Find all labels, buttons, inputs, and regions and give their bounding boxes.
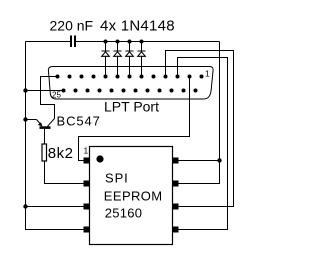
wire top supply rail left segment to capacitor (26, 41, 71, 43)
connector X1 LPT DB25 outline (48, 67, 213, 100)
diode D4 (138, 51, 146, 56)
svg-text:25: 25 (52, 91, 61, 100)
IC U1 right pin stubs (pins 5-8) (173, 158, 179, 233)
wire LPT pin4 hook to V3 down to EEPROM pin6 (166, 51, 234, 207)
junction V1 / EEPROM pin8 wire (217, 158, 221, 162)
wire diode D4 branch (141, 42, 143, 77)
connector X1 bottom row pins 14-25 (62, 89, 198, 93)
wire diode D1 branch (105, 42, 107, 77)
connector X1 top row pins 1-13 (56, 75, 204, 79)
svg-text:220 nF: 220 nF (50, 18, 94, 34)
junction supply rail / diode D2 (116, 40, 120, 44)
wire diode D2 branch (117, 42, 119, 77)
svg-text:BC547: BC547 (57, 114, 101, 129)
transistor Q1 base bar (40, 126, 51, 129)
junction ground rail / transistor emitter (23, 117, 27, 121)
transistor Q1 base wire down to resistor (44, 129, 46, 144)
svg-text:EEPROM: EEPROM (104, 189, 163, 204)
wire resistor bottom to EEPROM pin2 (45, 162, 84, 184)
junction ground rail / EEPROM pin3 wire (23, 204, 27, 208)
junction ground rail / pin25 wire (23, 88, 27, 92)
junction supply rail / diode D4 (140, 40, 144, 44)
wire V1 supply down right side to EEPROM pin8/pin7 (179, 42, 220, 184)
diode D3 (126, 51, 134, 56)
wire LPT pin2 down to EEPROM pin1 (CS) (79, 77, 190, 161)
wire diode D3 branch (129, 42, 131, 77)
transistor Q1 BC547 (26, 119, 55, 145)
diode D2 (114, 51, 122, 56)
svg-text:LPT Port: LPT Port (104, 99, 159, 115)
IC U1 SPI EEPROM 25160 body (90, 147, 173, 245)
transistor Q1 emitter arrowhead (38, 122, 43, 126)
svg-text:SPI: SPI (105, 171, 129, 186)
transistor Q1 emitter diagonal (37, 120, 42, 126)
wire ground rail to LPT pin25 (26, 90, 64, 92)
svg-text:8k2: 8k2 (48, 145, 74, 162)
svg-text:4x 1N4148: 4x 1N4148 (100, 18, 175, 35)
wire ground rail to EEPROM pin3 (26, 206, 84, 208)
transistor Q1 collector diagonal (48, 119, 55, 127)
IC U1 pin 1 indicator dot (96, 155, 103, 162)
wire LPT pin13 to transistor collector (41, 77, 58, 119)
resistor R1 8k2 (42, 144, 47, 161)
junction supply rail / diode D1 (104, 40, 108, 44)
wire EEPROM pin8 to V1 (179, 160, 220, 162)
svg-text:25160: 25160 (105, 206, 142, 221)
transistor Q1 emitter wire from ground rail (26, 119, 37, 121)
wire LPT pin3 hook to V2 down to EEPROM pin5 (178, 58, 228, 230)
wire top supply rail capacitor to right (76, 41, 220, 43)
diode D1 (102, 51, 110, 56)
capacitor C1 220 nF (70, 36, 76, 48)
wire ground rail left (26, 42, 84, 230)
junction supply rail / diode D3 (128, 40, 132, 44)
IC U1 left pin stubs (pins 1-4) (84, 158, 90, 233)
svg-text:1: 1 (84, 146, 89, 156)
svg-text:1: 1 (205, 69, 210, 79)
